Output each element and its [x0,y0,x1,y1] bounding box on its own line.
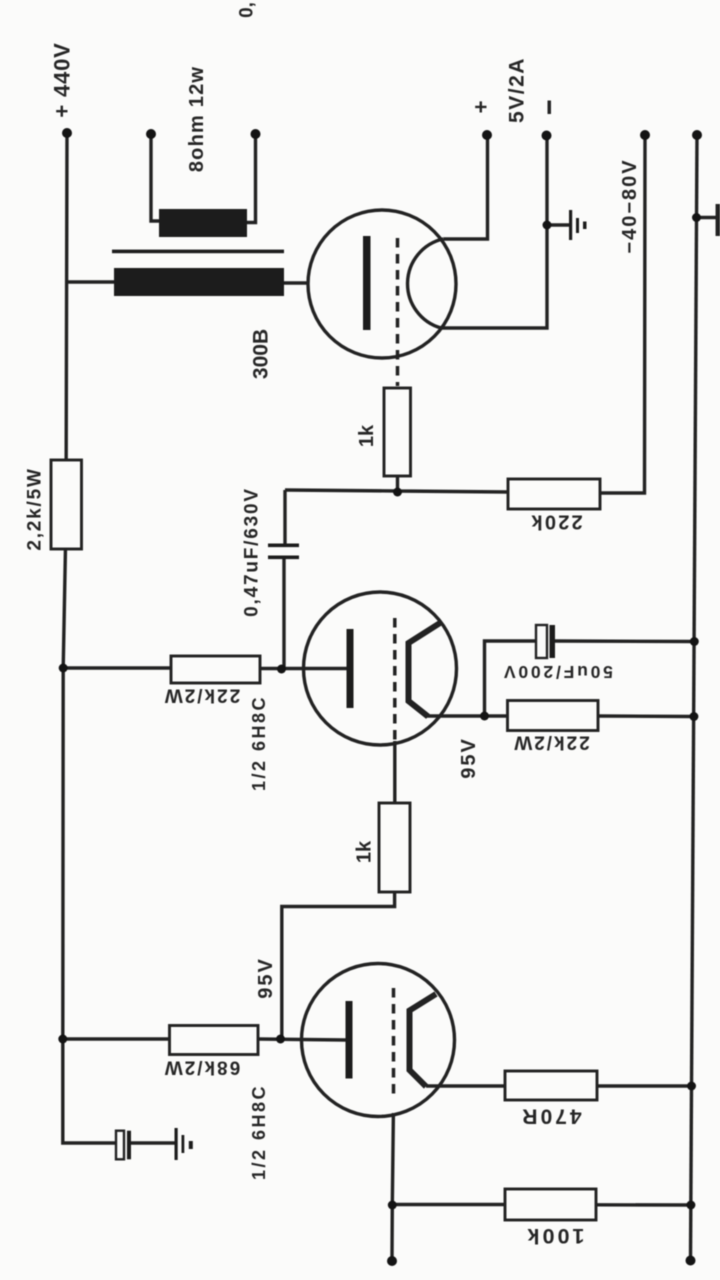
svg-text:95V: 95V [255,957,277,999]
tube 300B anode [363,236,371,330]
wire: -40-80V bias rail down to 220k [600,136,645,493]
wire: driver1 cathode lead [426,1084,505,1087]
svg-text:68k/2W: 68k/2W [163,1057,240,1078]
node input terminal bottom [387,1256,397,1266]
tube driver2 1/2 6H8C envelope [304,592,457,745]
svg-text:100k: 100k [525,1224,585,1248]
svg-text:5V/2A: 5V/2A [506,57,529,123]
junction bypass cap to ground rail [690,637,699,646]
capacitor PSU filter electrolytic [116,1131,124,1160]
tube driver1 grid (dashed) [392,988,396,1094]
junction rail to 68k/2W [58,1035,67,1044]
svg-text:95V: 95V [458,737,480,779]
tube 300B grid (dashed) [396,238,400,386]
wire: coupling cap bottom lead [282,558,285,670]
wire: cathode 22k/2W leads [485,714,694,718]
wire: 300B filament plus lead [443,136,487,239]
node speaker terminal right [251,129,261,139]
svg-text:1/2 6H8C: 1/2 6H8C [249,695,269,791]
tube 300B envelope [308,210,456,358]
svg-text:470R: 470R [519,1105,581,1128]
wire: 50uF bypass branch left [485,641,537,716]
wire: filter cap right lead to ground [131,1141,175,1144]
node ground rail bottom terminal [686,1256,696,1266]
svg-text:300B: 300B [250,329,273,379]
svg-text:−40−80V: −40−80V [619,158,641,253]
capacitor 50uF/200V bypass [536,625,547,658]
transformer core [112,250,284,254]
wire: 50uF bypass branch right [555,639,694,643]
svg-text:1/2 6H8C: 1/2 6H8C [249,1084,269,1180]
resistor 470R driver1 cathode [505,1071,597,1100]
svg-text:+: + [469,101,494,114]
svg-text:22k/2W: 22k/2W [512,732,589,753]
node filament minus terminal [542,131,552,141]
svg-text:50uF/200V: 50uF/200V [501,662,613,682]
wire: 470R right lead to ground rail [597,1084,692,1087]
junction 95V cathode node [480,712,489,721]
svg-text:2,2k/5W: 2,2k/5W [25,467,46,550]
wire: edge component plate [716,204,720,236]
junction input node [388,1201,397,1210]
tube driver1 anode [346,1001,353,1079]
capacitor 0,47uF/630V coupling plates [268,544,299,548]
wire: driver2 cathode lead to 95V node [426,714,485,717]
ground symbol at filament minus [569,210,587,240]
svg-text:8ohm 12w: 8ohm 12w [186,66,208,172]
tube driver2 cathode [409,623,441,717]
resistor 220k grid leak 300B [508,479,600,509]
wire: driver2 grid lead to 1k [393,741,396,803]
tube driver1 cathode [410,994,437,1087]
node +440V terminal [62,128,72,138]
node filament plus terminal [482,130,492,140]
resistor 1k 300B grid stopper [384,388,411,476]
svg-text:0,: 0, [237,2,258,18]
node speaker terminal left [146,129,156,139]
junction 300B grid node [393,488,402,497]
wire: driver2 plate net through 22k/2W [63,666,346,670]
svg-text:1k: 1k [354,840,376,863]
svg-text:220k: 220k [529,511,582,533]
wire: driver1 plate net through 68k/2W [63,1039,346,1040]
junction edge stub [692,213,701,222]
junction driver1 plate node 95V [276,1035,285,1044]
resistor 68k/2W driver1 plate [170,1026,259,1055]
junction rail to 22k/2W [59,664,68,673]
wire: transformer primary right lead to 300B plate [284,281,363,284]
node -40-80V terminal [640,130,650,140]
wire: 300B filament minus lead [441,136,547,328]
wire: speaker secondary left lead [151,136,160,221]
svg-text:1k: 1k [356,424,378,447]
tube driver2 anode [347,629,354,708]
transformer secondary winding 8ohm [159,209,247,237]
wire: coupling cap top lead [283,490,286,544]
junction minus lead to ground [543,221,552,230]
wire: speaker secondary right lead [246,136,256,223]
tube 300B filament arc [408,239,444,328]
resistor 2,2k/5W [51,460,82,549]
ground symbol at filter cap [175,1128,193,1160]
transformer primary winding [114,268,284,296]
wire: stub to page edge component [697,216,717,219]
resistor 22k/2W driver2 cathode [508,701,599,731]
resistor 100k grid leak input [505,1189,596,1220]
junction cathode 22k to ground rail [689,712,698,721]
wire: 1k bottom to 95V plate node of driver1 [282,892,395,1039]
wire: 300B grid node to 220k and coupling cap [285,476,508,492]
svg-text:22k/2W: 22k/2W [163,685,240,706]
wire: 100k grid leak leads [392,1203,691,1207]
resistor 22k/2W driver2 plate [171,656,260,683]
resistor 1k driver2 grid stopper [379,803,410,892]
wire: right ground return rail [691,135,698,1260]
junction driver2 plate node [277,665,286,674]
junction 470R to ground rail [687,1082,696,1091]
wire: +440V left supply rail down to filter cap [63,133,116,1143]
tube driver2 grid (dashed) [393,618,397,740]
svg-text:+ 440V: + 440V [50,42,75,117]
junction 100k to ground rail [686,1201,695,1210]
label minus filament [548,101,552,115]
wire: driver1 grid lead down to input [392,1113,393,1258]
tube driver1 1/2 6H8C envelope [302,964,455,1117]
wire: transformer primary left lead from rail [66,280,114,283]
svg-text:0,47uF/630V: 0,47uF/630V [242,487,263,617]
node ground rail top terminal [692,130,702,140]
wire: ground stub at minus lead [547,223,569,226]
